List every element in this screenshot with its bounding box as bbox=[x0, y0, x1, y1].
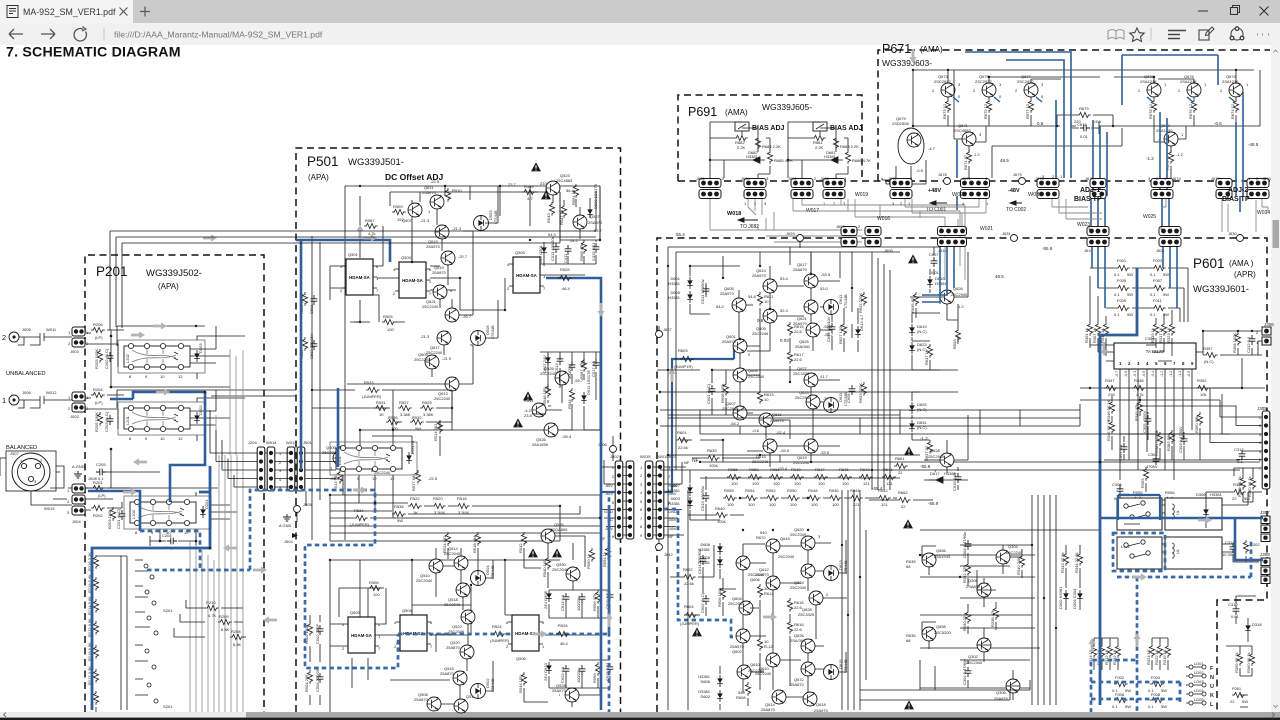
wire fuse bank bbox=[1094, 638, 1168, 670]
transistor Q626b bbox=[790, 633, 815, 653]
capacitor C204 bbox=[150, 533, 196, 550]
diode D608a bbox=[543, 590, 552, 609]
svg-text:R316 1K: R316 1K bbox=[1162, 649, 1167, 665]
svg-text:C307 0.1: C307 0.1 bbox=[1118, 444, 1123, 461]
capacitor C622 bbox=[560, 665, 569, 683]
svg-text:file:///D:/AAA_Marantz-Manual/: file:///D:/AAA_Marantz-Manual/MA-9S2_SM_… bbox=[114, 30, 323, 40]
svg-text:J306: J306 bbox=[1264, 322, 1274, 327]
svg-text:C411: C411 bbox=[563, 253, 568, 263]
svg-text:-22.5: -22.5 bbox=[430, 179, 440, 184]
svg-text:R603: R603 bbox=[678, 348, 688, 353]
resistor R510 bbox=[445, 188, 462, 202]
svg-text:52.4: 52.4 bbox=[780, 308, 789, 313]
transistor Q621 bbox=[422, 285, 453, 309]
svg-text:0.1: 0.1 bbox=[1114, 312, 1120, 317]
svg-text:121: 121 bbox=[881, 502, 888, 507]
svg-text:R048: R048 bbox=[808, 488, 818, 493]
diode D602 bbox=[698, 674, 723, 687]
svg-text:R518: R518 bbox=[457, 496, 467, 501]
resistor R356 bbox=[1132, 490, 1146, 509]
capacitor C201 bbox=[116, 508, 125, 529]
svg-text:25C2540: 25C2540 bbox=[728, 601, 745, 606]
svg-text:-0.7: -0.7 bbox=[1115, 371, 1119, 377]
resistor R570 vertical bbox=[592, 662, 601, 683]
svg-text:R637 82: R637 82 bbox=[924, 445, 929, 461]
svg-text:10: 10 bbox=[764, 397, 769, 402]
svg-text:25C3423: 25C3423 bbox=[793, 371, 810, 376]
warning triangle bottom c bbox=[692, 627, 702, 636]
svg-text:R209: R209 bbox=[219, 614, 229, 619]
wire right cluster bbox=[910, 247, 968, 490]
hdam module Q506 bbox=[506, 615, 545, 661]
transistor Q508 bbox=[414, 692, 441, 711]
wire J306 net bbox=[1196, 331, 1262, 355]
svg-text:R210: R210 bbox=[206, 600, 216, 605]
svg-text:J204: J204 bbox=[248, 440, 257, 445]
right scrollbar bbox=[1271, 45, 1280, 712]
resistor R633 vertical bbox=[858, 382, 867, 403]
transistor Q620 bbox=[790, 527, 821, 550]
svg-text:0.1: 0.1 bbox=[1148, 704, 1154, 709]
resistor R683 bbox=[833, 136, 859, 150]
pin strip W015a bbox=[645, 461, 653, 539]
connector J683 bbox=[820, 176, 847, 206]
svg-text:-1.2: -1.2 bbox=[1160, 371, 1164, 377]
svg-text:R323 1K: R323 1K bbox=[1166, 327, 1171, 343]
svg-text:9: 9 bbox=[640, 534, 642, 538]
svg-text:P601: P601 bbox=[1193, 256, 1225, 271]
svg-text:J305: J305 bbox=[1257, 406, 1267, 411]
svg-text:22.6: 22.6 bbox=[794, 627, 803, 632]
resistor row R055-R042 bbox=[723, 488, 891, 507]
fuse F004 bbox=[1148, 675, 1167, 693]
board P501 outline bbox=[296, 148, 621, 712]
svg-text:J684: J684 bbox=[741, 176, 750, 181]
node J506 bbox=[598, 442, 617, 461]
resistor R568 bbox=[579, 240, 587, 261]
blue dashed L302 outline bbox=[1113, 533, 1165, 571]
capacitor C511 bbox=[550, 236, 559, 261]
wire blue dashed riser bbox=[250, 490, 398, 668]
svg-text:48.5: 48.5 bbox=[1000, 158, 1009, 163]
svg-text:R349 47k: R349 47k bbox=[1134, 404, 1139, 421]
svg-text:J631: J631 bbox=[1002, 231, 1011, 236]
svg-text:D304 C304: D304 C304 bbox=[1072, 588, 1077, 609]
svg-text:D507 24V: D507 24V bbox=[542, 355, 547, 373]
trimmer bias adj 2 bbox=[813, 122, 863, 135]
svg-text:-55.9: -55.9 bbox=[1042, 246, 1053, 251]
connector J004 bbox=[67, 484, 85, 524]
svg-text:R675 12: R675 12 bbox=[983, 103, 988, 119]
connector J307 bbox=[1260, 510, 1270, 542]
svg-text:0.1: 0.1 bbox=[1150, 312, 1156, 317]
svg-text:C202 (N.C): C202 (N.C) bbox=[104, 348, 109, 369]
svg-text:25C2240: 25C2240 bbox=[793, 460, 810, 465]
warning triangle 3 bbox=[523, 391, 533, 400]
bottom scrollbar bbox=[0, 712, 1280, 718]
svg-text:R343 22.6k: R343 22.6k bbox=[1060, 553, 1065, 573]
svg-text:R202: R202 bbox=[93, 513, 103, 518]
svg-text:R503: R503 bbox=[952, 339, 957, 349]
resistor R661 bbox=[894, 456, 908, 475]
svg-text:R567 47k: R567 47k bbox=[579, 362, 584, 379]
svg-text:-4.7: -4.7 bbox=[928, 146, 936, 151]
svg-text:(APA): (APA) bbox=[158, 282, 179, 291]
svg-text:(N.C): (N.C) bbox=[917, 407, 927, 412]
transistor Q671 bbox=[954, 123, 982, 146]
svg-text:100: 100 bbox=[727, 502, 734, 507]
transistor Q623 bbox=[795, 390, 833, 409]
svg-text:0.1: 0.1 bbox=[1150, 272, 1156, 277]
wire bottom right rails2 bbox=[860, 660, 1030, 700]
svg-text:R203 100k: R203 100k bbox=[107, 510, 112, 529]
svg-text:LT544B: LT544B bbox=[843, 659, 848, 673]
wire P671 top rails bbox=[882, 70, 1260, 184]
transistor Q618 bbox=[803, 692, 829, 713]
svg-text:F004: F004 bbox=[1151, 675, 1161, 680]
svg-text:2SA/360: 2SA/360 bbox=[790, 638, 806, 643]
resistor R332 vertical bbox=[962, 562, 971, 583]
svg-text:BIAS TP: BIAS TP bbox=[1074, 196, 1102, 203]
svg-text:5: 5 bbox=[640, 500, 642, 504]
jack J005 input 2 bbox=[2, 327, 72, 345]
svg-text:25C2340: 25C2340 bbox=[966, 660, 983, 665]
svg-text:(LP): (LP) bbox=[98, 493, 106, 498]
diode D201 bbox=[200, 499, 209, 518]
svg-text:25A970: 25A970 bbox=[770, 418, 785, 423]
svg-text:C306: C306 bbox=[1112, 482, 1122, 487]
svg-text:100: 100 bbox=[769, 502, 776, 507]
resistor R684 bbox=[755, 136, 781, 150]
svg-text:2SC5200: 2SC5200 bbox=[934, 630, 951, 635]
junction dots bbox=[110, 335, 198, 543]
svg-text:0.1: 0.1 bbox=[1237, 459, 1243, 464]
fuse F001 bbox=[1114, 258, 1133, 277]
connector J672 bbox=[888, 176, 913, 206]
resistor R547 vertical bbox=[559, 204, 567, 225]
warning triangle 6 bbox=[552, 548, 562, 557]
arrow W029 bbox=[930, 192, 966, 205]
svg-text:R307 1k: R307 1k bbox=[1092, 328, 1097, 343]
svg-text:LT544B: LT544B bbox=[493, 210, 498, 224]
resistor R338 vertical bbox=[990, 606, 999, 627]
resistor R662 bbox=[897, 490, 911, 509]
node J504 bbox=[292, 533, 298, 538]
svg-text:100: 100 bbox=[794, 481, 801, 486]
fuse F008 bbox=[1148, 692, 1167, 709]
svg-text:R324 1K: R324 1K bbox=[1146, 649, 1151, 665]
svg-text:J629: J629 bbox=[786, 231, 795, 236]
node J631 bbox=[1002, 231, 1018, 242]
svg-text:3.38K: 3.38K bbox=[423, 412, 434, 417]
svg-text:R567: R567 bbox=[365, 218, 375, 223]
board P201 outline bbox=[85, 255, 264, 712]
svg-text:R312 1K: R312 1K bbox=[1104, 649, 1109, 665]
resistor R330 vertical bbox=[962, 610, 971, 631]
capacitor C517 bbox=[591, 359, 599, 377]
svg-text:R055: R055 bbox=[724, 488, 734, 493]
capacitor C302 bbox=[962, 659, 971, 685]
capacitor C613 bbox=[700, 486, 709, 511]
wire top frame P501 bbox=[312, 186, 600, 540]
svg-text:R686 4.7K: R686 4.7K bbox=[852, 158, 871, 163]
resistor row R055-R041 upper bbox=[727, 467, 896, 486]
resistor R202 bbox=[91, 505, 105, 518]
svg-text:(N.C): (N.C) bbox=[917, 329, 927, 334]
svg-text:R627 120k: R627 120k bbox=[838, 325, 843, 344]
led opto D613b bbox=[824, 560, 849, 581]
diode D603 bbox=[668, 496, 693, 509]
svg-text:J504: J504 bbox=[284, 539, 293, 544]
svg-text:Q304: Q304 bbox=[1008, 544, 1019, 549]
wire IC pins bbox=[1080, 268, 1265, 480]
svg-text:R564 1k: R564 1k bbox=[602, 552, 607, 567]
wire blue P671 bbox=[953, 52, 1243, 196]
svg-text:C302 0.47/60v: C302 0.47/60v bbox=[962, 659, 967, 685]
svg-text:R358 100K: R358 100K bbox=[1232, 333, 1237, 353]
svg-text:R633 220K: R633 220K bbox=[858, 383, 863, 403]
resistor R503 vertical bbox=[299, 337, 308, 359]
svg-text:2SD1508: 2SD1508 bbox=[892, 121, 909, 126]
svg-text:25A970: 25A970 bbox=[422, 190, 437, 195]
pin strip J501 bbox=[297, 447, 305, 491]
resistor R345 vertical bbox=[1106, 420, 1115, 441]
svg-text:6: 6 bbox=[640, 508, 642, 512]
svg-text:C204: C204 bbox=[162, 533, 172, 538]
svg-text:100: 100 bbox=[748, 502, 755, 507]
transistor Q306 bbox=[994, 679, 1020, 701]
svg-text:25C2246: 25C2246 bbox=[752, 331, 769, 336]
svg-text:R641: R641 bbox=[883, 467, 893, 472]
transistor Q628c bbox=[798, 591, 829, 617]
svg-text:5W: 5W bbox=[1125, 688, 1131, 693]
svg-text:5W: 5W bbox=[397, 518, 403, 523]
svg-text:100: 100 bbox=[731, 481, 738, 486]
svg-text:C203 (N.C): C203 (N.C) bbox=[104, 411, 109, 432]
svg-text:(LP): (LP) bbox=[95, 335, 103, 340]
diode D507 bbox=[542, 354, 551, 373]
svg-text:W025: W025 bbox=[1143, 214, 1156, 220]
svg-text:J682: J682 bbox=[696, 176, 705, 181]
svg-text:F007: F007 bbox=[1153, 278, 1163, 283]
svg-text:W019: W019 bbox=[855, 192, 868, 198]
svg-text:A.GND: A.GND bbox=[72, 464, 85, 469]
svg-text:WG339J501-: WG339J501- bbox=[348, 157, 404, 168]
wire blue J619 drops bbox=[1092, 247, 1105, 308]
svg-text:R544 150: R544 150 bbox=[518, 675, 523, 693]
svg-text:A GND: A GND bbox=[279, 523, 292, 528]
relay L501 bbox=[330, 442, 417, 481]
diode D606 bbox=[698, 542, 723, 555]
fuse F006 bbox=[1112, 692, 1131, 709]
resistor R603 jumper on blue bbox=[674, 348, 694, 369]
capacitor C307 bbox=[1118, 443, 1127, 461]
svg-text:R661: R661 bbox=[895, 456, 905, 461]
transistor Q530 bbox=[552, 562, 580, 581]
svg-text:R506: R506 bbox=[369, 580, 379, 585]
svg-text:24.2: 24.2 bbox=[570, 238, 579, 243]
svg-text:W018: W018 bbox=[727, 211, 741, 217]
resistor R350 bbox=[1194, 412, 1203, 433]
svg-text:R053: R053 bbox=[749, 467, 759, 472]
led opto D611 bbox=[824, 294, 849, 315]
svg-text:25C2240: 25C2240 bbox=[1006, 550, 1023, 555]
transistor Q615b bbox=[752, 439, 790, 464]
board P671 outline bbox=[878, 50, 1270, 181]
svg-text:100/20v: 100/20v bbox=[576, 669, 581, 683]
svg-text:(AMA ): (AMA ) bbox=[1229, 259, 1254, 268]
diode D610 bbox=[543, 662, 552, 681]
svg-text:100/20v: 100/20v bbox=[567, 365, 572, 379]
transistor Q606b bbox=[736, 556, 765, 582]
svg-text:Q656: Q656 bbox=[936, 548, 947, 553]
resistor R359b vertical bbox=[1237, 476, 1246, 497]
svg-text:-55.9: -55.9 bbox=[920, 464, 931, 469]
svg-text:R527: R527 bbox=[399, 400, 409, 405]
pin strip J601 bbox=[656, 461, 664, 539]
pin strip J305 bbox=[1257, 406, 1270, 489]
svg-text:R532: R532 bbox=[412, 415, 422, 420]
svg-text:0.01: 0.01 bbox=[1231, 614, 1240, 619]
connector J606 pair bbox=[865, 227, 893, 254]
pin numbers J204 col bbox=[279, 452, 281, 490]
resistor R616 vertical bbox=[787, 598, 804, 612]
svg-text:-53.5: -53.5 bbox=[820, 450, 830, 455]
svg-text:H3381: H3381 bbox=[746, 154, 759, 159]
capacitor C614a bbox=[560, 593, 569, 611]
arrow W031 bbox=[1010, 192, 1042, 205]
transistor Q520 bbox=[446, 640, 474, 659]
svg-text:BIAS TP: BIAS TP bbox=[1222, 196, 1250, 203]
svg-text:R606 100k: R606 100k bbox=[717, 588, 722, 607]
svg-text:0.1: 0.1 bbox=[1114, 292, 1120, 297]
svg-text:R513 681: R513 681 bbox=[333, 473, 338, 491]
wire blue main loop bbox=[92, 466, 210, 710]
transistor Q672 bbox=[1156, 123, 1184, 146]
svg-text:F005: F005 bbox=[1117, 278, 1127, 283]
svg-text:LT544B: LT544B bbox=[843, 560, 848, 574]
resistor R514b vertical bbox=[442, 532, 451, 553]
grey arrows left bbox=[123, 225, 676, 638]
resistor R501x vertical bbox=[952, 328, 961, 349]
resistor R611 bbox=[757, 292, 774, 306]
svg-text:R647 1k: R647 1k bbox=[924, 350, 929, 365]
svg-text:F061: F061 bbox=[1232, 686, 1242, 691]
svg-text:100: 100 bbox=[842, 481, 849, 486]
wire blue J611 drop bbox=[922, 247, 954, 302]
transistor Q512 bbox=[454, 694, 477, 713]
transistor Q679 dual bbox=[888, 116, 936, 185]
transistor Q601 bbox=[722, 334, 751, 357]
svg-text:R049: R049 bbox=[791, 467, 801, 472]
hdam module Q502 bbox=[342, 610, 381, 653]
svg-text:R561 1k: R561 1k bbox=[571, 190, 576, 205]
capacitor C614 bbox=[697, 549, 706, 574]
resistor R518 bbox=[456, 496, 470, 515]
svg-text:-54.2: -54.2 bbox=[730, 421, 740, 426]
svg-text:C501: C501 bbox=[309, 304, 314, 314]
svg-text:68: 68 bbox=[906, 564, 911, 569]
svg-text:W012: W012 bbox=[46, 390, 57, 395]
svg-text:P691: P691 bbox=[688, 105, 717, 119]
svg-text:(APR): (APR) bbox=[1234, 270, 1256, 279]
wire blue relay top bbox=[1118, 495, 1160, 520]
resistor R534 jumper bbox=[350, 508, 370, 527]
svg-text:Q607: Q607 bbox=[402, 218, 413, 223]
svg-text:53.7: 53.7 bbox=[594, 228, 603, 233]
resistor R601 bbox=[676, 430, 690, 450]
svg-text:0.01: 0.01 bbox=[1080, 134, 1089, 139]
resistor R618 vertical bbox=[787, 620, 804, 634]
capacitor C415b bbox=[591, 242, 599, 261]
resistor R381 vertical bbox=[1154, 430, 1163, 453]
svg-text:C603 100/10V: C603 100/10V bbox=[826, 316, 831, 342]
resistor R615 vertical bbox=[787, 322, 804, 336]
svg-text:R539: R539 bbox=[524, 184, 534, 189]
transistor Q529 bbox=[540, 366, 584, 385]
led LD03 bbox=[1186, 679, 1214, 690]
pin strip J502b bbox=[626, 461, 634, 539]
svg-text:22: 22 bbox=[1232, 496, 1237, 501]
svg-text:J006: J006 bbox=[22, 390, 31, 395]
transistor Q617 bbox=[793, 262, 831, 291]
svg-text:LT544B: LT544B bbox=[843, 294, 848, 308]
led LD02 bbox=[1186, 670, 1214, 681]
capacitor C519 bbox=[567, 361, 575, 379]
svg-text:53.0: 53.0 bbox=[820, 286, 829, 291]
transistor Q527 bbox=[573, 214, 603, 233]
svg-text:D201: D201 bbox=[204, 499, 209, 509]
svg-text:C619 0.01: C619 0.01 bbox=[952, 472, 957, 491]
svg-text:D602: D602 bbox=[700, 694, 710, 699]
svg-text:R541: R541 bbox=[524, 398, 534, 403]
svg-text:100: 100 bbox=[773, 481, 780, 486]
svg-text:-0.4: -0.4 bbox=[1151, 371, 1155, 377]
svg-text:J005: J005 bbox=[22, 327, 31, 332]
svg-text:2.2K: 2.2K bbox=[737, 145, 746, 150]
svg-text:-0.5: -0.5 bbox=[1142, 371, 1146, 377]
transistor Q619b bbox=[778, 439, 830, 471]
svg-text:-1.2: -1.2 bbox=[1169, 371, 1173, 377]
transistor Q609 bbox=[414, 352, 452, 369]
svg-text:Q501: Q501 bbox=[348, 252, 359, 257]
svg-text:C310: C310 bbox=[1228, 602, 1238, 607]
switch S201 contacts bbox=[121, 556, 158, 710]
wire blue J601 branch bbox=[601, 491, 616, 493]
node J630 bbox=[1228, 231, 1244, 242]
svg-text:J630: J630 bbox=[1228, 231, 1237, 236]
svg-text:7. SCHEMATIC DIAGRAM: 7. SCHEMATIC DIAGRAM bbox=[6, 45, 181, 61]
svg-text:MA-9S2_SM_VER1.pdf: MA-9S2_SM_VER1.pdf bbox=[23, 7, 116, 17]
svg-text:23.7: 23.7 bbox=[508, 182, 517, 187]
svg-text:R514 681: R514 681 bbox=[442, 535, 447, 553]
relay L201 bbox=[118, 402, 205, 441]
resistor R360 vertical bbox=[1140, 467, 1149, 488]
svg-text:J308: J308 bbox=[1260, 552, 1270, 557]
wire blue R525 to bottom bbox=[546, 278, 601, 710]
transistor Q607b bbox=[722, 401, 747, 426]
connector J607 pair bbox=[836, 224, 861, 247]
svg-text:Q503: Q503 bbox=[401, 255, 412, 260]
wire relay area bbox=[1162, 492, 1262, 562]
transistor Q514 bbox=[444, 546, 468, 570]
net labels right bbox=[668, 465, 678, 539]
svg-text:R304: R304 bbox=[1233, 482, 1243, 487]
svg-text:LD04: LD04 bbox=[1194, 688, 1204, 693]
resistor R342 vertical bbox=[1060, 552, 1069, 573]
svg-text:LT544B: LT544B bbox=[490, 325, 495, 339]
svg-text:R509: R509 bbox=[393, 204, 403, 209]
